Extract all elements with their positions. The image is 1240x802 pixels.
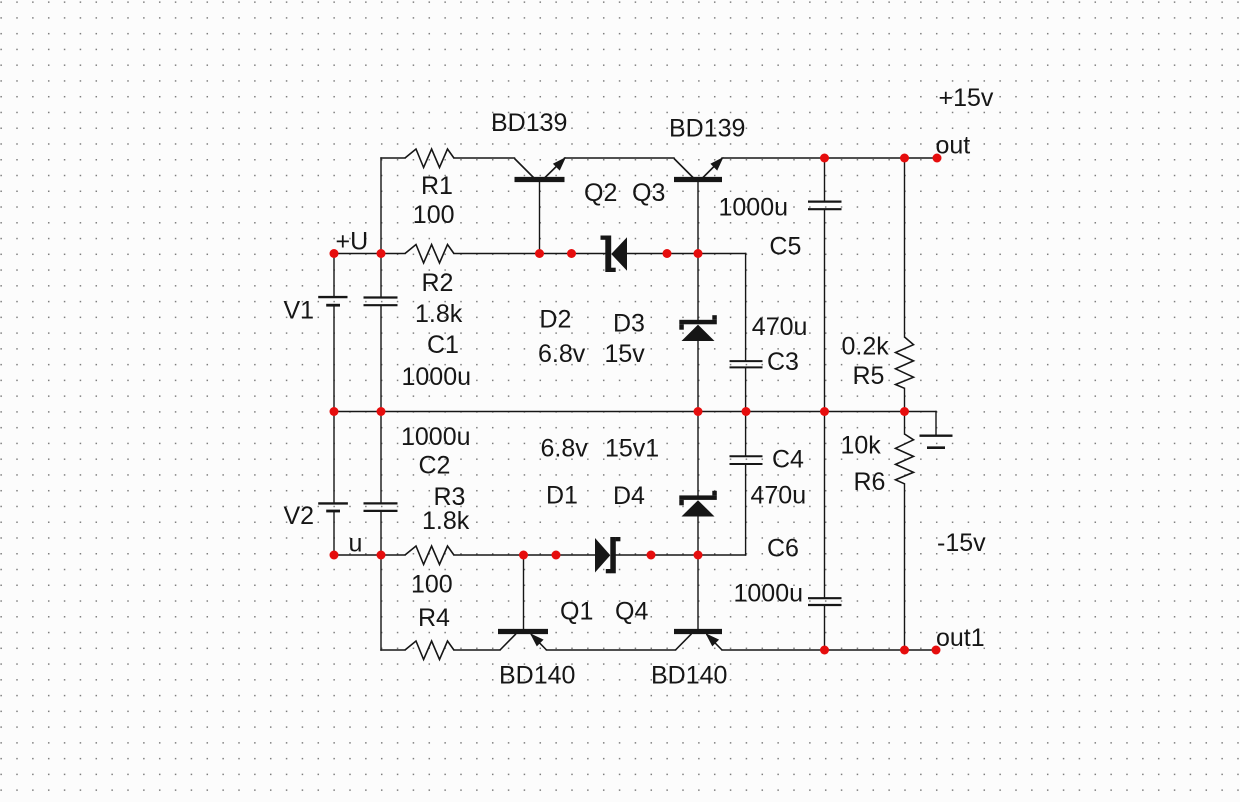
junction middle rail C1 xyxy=(377,407,386,416)
wire R6 branch lower xyxy=(904,484,906,650)
wire C5 branch upper xyxy=(824,158,826,202)
junction +U Q3 base xyxy=(694,249,703,258)
resistor R4 xyxy=(405,641,454,660)
wire V1 branch lower xyxy=(333,305,335,411)
svg-text:D1: D1 xyxy=(546,482,578,510)
svg-text:C4: C4 xyxy=(772,446,804,474)
wire R5 to R6 xyxy=(904,388,906,434)
zener diode D2 xyxy=(601,236,628,273)
svg-text:Q2: Q2 xyxy=(584,179,617,207)
zener diode D3 xyxy=(679,315,717,341)
svg-text:D4: D4 xyxy=(613,482,645,510)
svg-text:6.8v: 6.8v xyxy=(541,434,589,462)
svg-text:100: 100 xyxy=(411,570,453,598)
battery V1 xyxy=(318,297,347,305)
transistor Q2 xyxy=(515,157,567,180)
svg-text:C3: C3 xyxy=(767,348,799,376)
wire u rail D1 to corner xyxy=(616,554,746,556)
resistor R3 xyxy=(405,546,454,565)
wire top rail Q2 to Q3 xyxy=(565,157,675,159)
wire top rail Q3 to out terminal xyxy=(722,157,937,159)
svg-text:6.8v: 6.8v xyxy=(538,340,586,368)
wire bottom rail Q4 to out1 terminal xyxy=(722,649,936,651)
junction middle rail D3 xyxy=(694,407,703,416)
node out terminal xyxy=(933,154,942,163)
wire ground lead xyxy=(935,412,937,436)
svg-text:BD140: BD140 xyxy=(499,662,575,690)
svg-text:R6: R6 xyxy=(854,468,886,496)
junction bottom rail C6 xyxy=(820,646,829,655)
junction +U rail b xyxy=(663,249,672,258)
junction top rail C5 xyxy=(820,154,829,163)
wire C1 branch upper xyxy=(380,254,382,298)
svg-text:BD140: BD140 xyxy=(651,662,727,690)
capacitor C6 xyxy=(808,598,842,605)
node +U left xyxy=(330,249,339,258)
capacitor C2 xyxy=(364,503,398,511)
wire D3 anode lead xyxy=(697,254,699,320)
junction u Q4 base xyxy=(694,551,703,560)
junction u rail C2 xyxy=(377,551,386,560)
wire bottom rail left segment xyxy=(381,649,405,651)
svg-text:1000u: 1000u xyxy=(402,363,472,391)
wire C5 to C6 branch xyxy=(824,209,826,598)
wire C6 branch lower xyxy=(824,605,826,650)
wire C2 branch lower xyxy=(380,511,382,650)
zener diode D4 xyxy=(679,491,717,517)
svg-text:R2: R2 xyxy=(422,269,454,297)
svg-text:D2: D2 xyxy=(539,306,571,334)
wire middle rail to D4 xyxy=(697,412,699,496)
wire top rail R1 to Q2 xyxy=(454,157,515,159)
capacitor C4 xyxy=(730,456,763,464)
svg-text:V2: V2 xyxy=(284,502,315,530)
capacitor C1 xyxy=(364,298,398,306)
wire u rail R3 to D1 xyxy=(454,554,595,556)
wire Q1 base lead xyxy=(523,555,525,629)
svg-text:out: out xyxy=(936,132,971,160)
resistor R2 xyxy=(405,245,454,264)
node u left xyxy=(330,551,339,560)
svg-text:10k: 10k xyxy=(841,432,882,460)
svg-text:1000u: 1000u xyxy=(734,580,804,608)
svg-text:470u: 470u xyxy=(751,482,807,510)
svg-text:+U: +U xyxy=(336,228,369,256)
junction u rail b xyxy=(647,551,656,560)
wire Q4 base lead xyxy=(697,555,699,629)
svg-text:u: u xyxy=(349,530,363,558)
wire V1 branch upper xyxy=(333,254,335,298)
svg-text:out1: out1 xyxy=(936,624,985,652)
wire +U rail left segment xyxy=(334,253,405,255)
svg-text:C5: C5 xyxy=(769,232,801,260)
svg-text:1000u: 1000u xyxy=(401,423,471,451)
svg-text:1.8k: 1.8k xyxy=(415,300,463,328)
junction middle rail R5 xyxy=(900,407,909,416)
svg-text:15v1: 15v1 xyxy=(605,434,659,462)
transistor Q3 xyxy=(674,157,724,180)
wire Q3 base lead xyxy=(697,182,699,254)
wire bottom rail R4 to Q1 xyxy=(454,649,500,651)
ground xyxy=(920,436,953,448)
svg-text:Q4: Q4 xyxy=(615,598,648,626)
svg-text:0.2k: 0.2k xyxy=(842,333,890,361)
svg-text:+15v: +15v xyxy=(939,84,994,112)
junction middle rail C5 xyxy=(820,407,829,416)
svg-text:BD139: BD139 xyxy=(491,109,567,137)
svg-text:15v: 15v xyxy=(605,340,646,368)
svg-text:1.8k: 1.8k xyxy=(422,507,470,535)
svg-text:470u: 470u xyxy=(752,313,808,341)
junction u rail a xyxy=(552,551,561,560)
wire left riser top rail to +U rail xyxy=(380,158,382,254)
resistor R6 xyxy=(896,434,914,484)
junction +U rail a xyxy=(567,249,576,258)
transistor Q4 xyxy=(674,632,722,651)
wire C4 branch lower xyxy=(745,464,747,555)
svg-text:BD139: BD139 xyxy=(669,115,745,143)
svg-text:1000u: 1000u xyxy=(719,194,789,222)
svg-text:-15v: -15v xyxy=(937,529,986,557)
wire V2 branch lower xyxy=(333,511,335,555)
wire +U rail D2 to corner xyxy=(627,253,746,255)
wire C3 to C4 branch xyxy=(745,367,747,456)
svg-text:Q1: Q1 xyxy=(560,598,593,626)
junction top rail R5 xyxy=(900,154,909,163)
capacitor C3 xyxy=(730,361,763,367)
wire D3 to middle rail xyxy=(697,341,699,412)
junction middle rail V xyxy=(330,407,339,416)
wire u rail left segment xyxy=(334,554,405,556)
junction +U Q2 base xyxy=(535,249,544,258)
wire bottom rail Q1 to Q4 xyxy=(547,649,676,651)
wire +U rail R2 to D2 xyxy=(454,253,605,255)
svg-text:C6: C6 xyxy=(767,535,799,563)
junction u Q1 base xyxy=(519,551,528,560)
wire top rail left segment xyxy=(381,157,405,159)
svg-text:C2: C2 xyxy=(419,452,451,480)
junction bottom rail R6 xyxy=(900,646,909,655)
wire C3 branch upper xyxy=(745,254,747,362)
junction +U C1 xyxy=(377,249,386,258)
svg-text:100: 100 xyxy=(413,201,455,229)
transistor Q1 xyxy=(498,632,548,651)
svg-text:C1: C1 xyxy=(427,331,459,359)
svg-text:R5: R5 xyxy=(853,362,885,390)
battery V2 xyxy=(318,503,348,511)
zener diode D1 xyxy=(595,537,620,573)
svg-text:Q3: Q3 xyxy=(632,179,665,207)
wire C1 to C2 branch xyxy=(380,305,382,503)
wire middle rail xyxy=(334,411,936,413)
svg-text:D3: D3 xyxy=(613,310,645,338)
svg-text:R1: R1 xyxy=(421,172,453,200)
wire V2 branch upper xyxy=(333,412,335,504)
resistor R5 xyxy=(896,337,914,388)
resistor R1 xyxy=(405,149,454,168)
svg-text:V1: V1 xyxy=(284,297,315,325)
node out1 terminal xyxy=(932,646,941,655)
svg-text:R4: R4 xyxy=(418,604,450,632)
capacitor C5 xyxy=(808,202,842,210)
wire Q2 base lead xyxy=(539,182,541,254)
wire D4 to u rail xyxy=(697,517,699,556)
wire R5 branch upper xyxy=(904,158,906,337)
junction middle rail C3 xyxy=(742,407,751,416)
